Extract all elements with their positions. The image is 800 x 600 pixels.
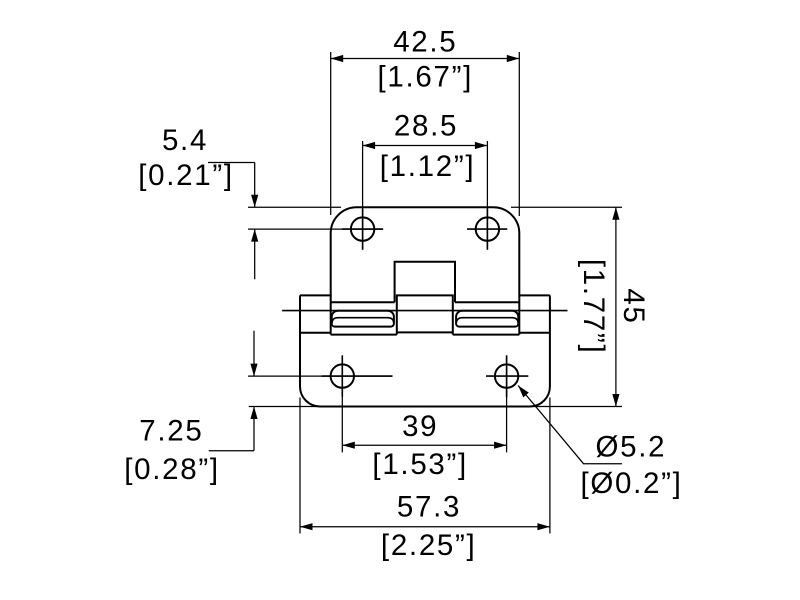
reference line 5.4 lower (hole centerline ext) [248,228,383,230]
arrowhead 5.4 down [251,195,258,208]
arrowhead 5.4 up [251,229,258,242]
leader 5.4 down-arrow stem [254,163,256,208]
leader 5.4 up-arrow stem [254,229,256,279]
dimension line 39 [342,444,506,446]
extension line 28.5 left [362,141,364,250]
centermark hole bottom-left [341,355,343,396]
extension line 42.5 right [518,52,520,216]
arrowhead 45 top [612,207,619,220]
arrowhead 42.5 left [331,55,344,62]
upper hinge leaf outline [331,207,520,334]
leader 7.25 down-arrow stem [253,331,255,376]
leader 7.25 shelf [209,450,254,452]
extension line 45 top [511,206,622,208]
arrowhead 39 left [342,442,355,449]
left spring pack [332,311,394,327]
hole bottom-left [331,364,354,387]
hole top-right [476,217,499,240]
arrowhead 7.25 down [250,364,257,377]
svg-text:[1.53”]: [1.53”] [372,448,468,481]
hinge pin centerline [282,310,567,312]
arrowhead 45 bottom [612,394,619,407]
leader diameter 5.2 [518,386,622,464]
arrowhead 39 right [494,442,507,449]
arrowhead 57.3 left [300,523,313,530]
lower leaf top edges [300,294,550,296]
reference line 7.25 upper (hole centerline ext) [248,375,393,377]
arrowhead diameter 5.2 leader [518,386,529,398]
center knuckle [397,295,453,334]
dimension line 45 [615,207,617,406]
arrowhead 28.5 left [363,142,376,149]
svg-text:[Ø0.2”]: [Ø0.2”] [580,467,682,500]
svg-text:[1.67”]: [1.67”] [378,61,474,94]
arrowhead 7.25 up [250,407,257,420]
extension line 42.5 left [330,52,332,215]
lower hinge leaf outline [300,295,550,406]
extension line 45 bottom [531,406,622,408]
leader 7.25 up-arrow stem [253,407,255,451]
left spring divider [332,318,394,323]
leader 5.4 shelf [208,162,255,164]
svg-text:[2.25”]: [2.25”] [381,529,477,562]
reference line 7.25 lower (plate bottom ext) [249,406,321,408]
svg-text:28.5: 28.5 [394,110,458,143]
svg-text:5.4: 5.4 [162,124,208,157]
svg-text:57.3: 57.3 [397,491,461,524]
dimension line 57.3 [300,526,550,528]
reference line 5.4 upper (plate top ext) [248,206,341,208]
knuckle slot bottom edges [331,334,520,336]
svg-text:Ø5.2: Ø5.2 [596,431,667,464]
svg-text:[0.28”]: [0.28”] [124,453,220,486]
svg-text:42.5: 42.5 [393,26,457,59]
centermark hole bottom-right [506,355,508,397]
svg-text:[1.12”]: [1.12”] [380,150,476,183]
extension line 57.3 left [299,398,301,534]
arrowhead 42.5 right [507,55,520,62]
right spring pack [456,311,518,327]
right spring divider [456,318,518,323]
dimension line 42.5 [331,58,520,60]
extension line 39 right [506,355,508,452]
extension line 57.3 right [549,398,551,534]
extension line 28.5 right [486,141,488,250]
knuckle slot top edges [331,301,520,303]
svg-text:45: 45 [617,288,650,324]
end knuckle bottom edges [300,332,550,334]
center tab of lower leaf [395,262,455,303]
extension line 39 left [341,355,343,452]
hole top-left [351,217,374,240]
svg-text:[0.21”]: [0.21”] [138,159,234,192]
svg-text:[1.77”]: [1.77”] [577,259,610,355]
dimension line 28.5 [363,145,488,147]
arrowhead 28.5 right [475,142,488,149]
svg-text:39: 39 [402,410,438,443]
centermark hole top-right [486,209,488,250]
svg-text:7.25: 7.25 [139,415,203,448]
arrowhead 57.3 right [537,523,550,530]
centermark hole top-left [362,209,364,250]
hole bottom-right [495,364,518,387]
